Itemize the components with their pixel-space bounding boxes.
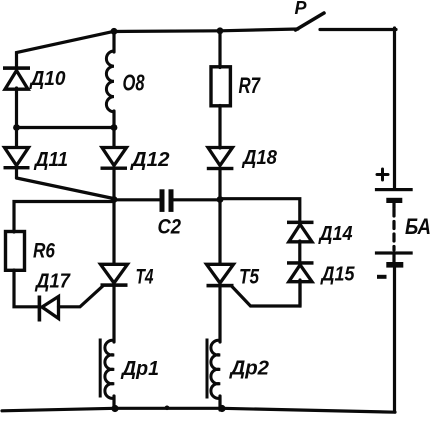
wire top bus left <box>112 29 298 32</box>
node center-right y199 <box>217 196 224 203</box>
node center-left y199 <box>111 196 118 203</box>
svg-text:Д18: Д18 <box>241 147 278 169</box>
wire D14 branch top <box>220 199 300 222</box>
inductor O8 <box>106 51 114 112</box>
wire R6 bottom <box>14 270 38 307</box>
wire center-right rail top <box>218 30 221 68</box>
wire top bus right <box>320 28 396 31</box>
thyristor T5 <box>207 264 234 287</box>
battery BA plus sign <box>377 169 388 180</box>
wire T5 to Dr2 <box>218 286 221 342</box>
node bottom left junction <box>111 405 118 412</box>
wire D15 to gate wire <box>298 280 301 306</box>
wire D14 to D15 <box>298 241 301 263</box>
wire D12 to T4 <box>112 170 115 265</box>
wire diagonal top-left <box>17 31 115 68</box>
battery BA minus sign <box>377 275 387 279</box>
wire D18 to T5 <box>218 170 221 265</box>
svg-text:Д12: Д12 <box>129 149 169 171</box>
wire C2 right <box>173 198 220 201</box>
battery BA cell2 long plate <box>375 251 413 254</box>
wire bottom bus <box>2 408 395 412</box>
wire center-left rail top <box>112 31 115 53</box>
wire R6 branch top <box>14 202 114 233</box>
svg-text:Р: Р <box>295 0 308 18</box>
wire R7 to D18 <box>218 106 221 149</box>
svg-text:Д10: Д10 <box>29 68 66 90</box>
wire T5 gate <box>232 281 300 306</box>
diode D12 <box>101 148 128 170</box>
node top-left junction <box>111 28 118 35</box>
svg-text:Д17: Д17 <box>34 271 71 293</box>
svg-text:Т4: Т4 <box>136 266 154 289</box>
node R7 top junction <box>217 27 224 34</box>
switch P blade <box>296 13 325 30</box>
inductor Dr1 <box>105 340 114 398</box>
inductor Dr2 core bar <box>206 339 209 399</box>
node bottom center junction <box>218 405 225 412</box>
thyristor T4 <box>101 264 128 287</box>
resistor R7 <box>211 67 230 106</box>
svg-text:R7: R7 <box>239 73 262 98</box>
battery BA link plates <box>392 255 395 263</box>
svg-text:О8: О8 <box>123 70 145 96</box>
wire right rail top <box>393 28 396 188</box>
diode D14 <box>287 221 314 242</box>
battery BA dashed link <box>392 203 395 250</box>
wire C2 left <box>114 198 160 201</box>
svg-text:R6: R6 <box>33 240 55 263</box>
diode D10 <box>3 66 30 89</box>
node left y127 <box>13 124 20 131</box>
inductor Dr1 core bar <box>99 339 102 398</box>
wire T4 to Dr1 <box>112 286 115 342</box>
node O8 bottom <box>111 124 118 131</box>
battery BA cell1 short plate <box>386 198 402 203</box>
svg-text:Т5: Т5 <box>239 266 259 289</box>
wire left rail lower <box>15 169 18 178</box>
svg-text:Др1: Др1 <box>120 358 159 380</box>
wire Dr1 to bottom <box>112 396 115 410</box>
inductor Dr2 <box>211 340 220 398</box>
battery BA cell1 long plate <box>375 188 413 191</box>
diode D18 <box>207 148 234 171</box>
diode D17 <box>38 296 59 322</box>
diode D11 <box>4 148 30 170</box>
svg-text:БА: БА <box>405 214 431 239</box>
wire horizontal y127 <box>17 126 115 129</box>
wire O8 to D12 <box>112 111 115 147</box>
wire diagonal to center <box>17 178 114 199</box>
node bottom stray dot <box>165 406 170 411</box>
resistor R6 <box>6 232 25 271</box>
wire right rail bottom <box>393 268 396 413</box>
svg-text:Д11: Д11 <box>33 149 68 171</box>
wire left rail mid <box>15 88 18 147</box>
wire D17 to T4 gate <box>59 286 104 307</box>
wire Dr2 to bottom <box>218 396 221 410</box>
svg-text:Д15: Д15 <box>320 264 356 286</box>
svg-text:Др2: Др2 <box>228 358 269 380</box>
svg-text:С2: С2 <box>158 216 182 239</box>
svg-text:Д14: Д14 <box>318 223 353 245</box>
battery BA cell2 short plate <box>386 262 403 268</box>
diode D15 <box>287 261 314 282</box>
capacitor C2 <box>160 189 174 212</box>
